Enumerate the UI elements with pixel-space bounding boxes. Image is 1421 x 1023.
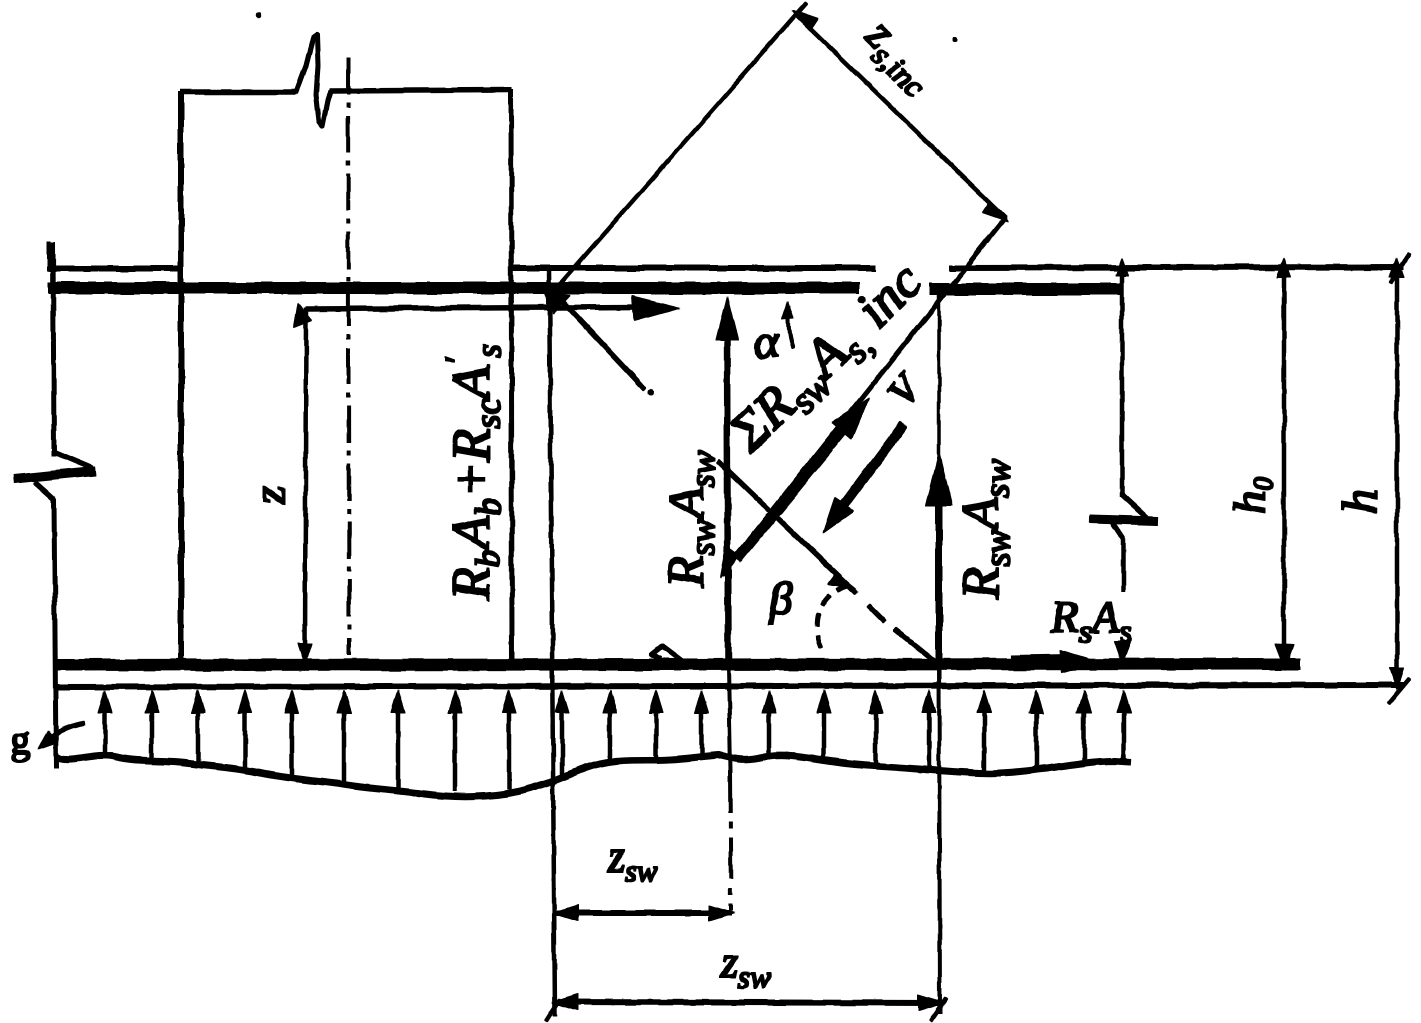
distributed load arrow 4 <box>243 710 247 769</box>
bottom steel force arrow RsAs <box>1012 660 1072 661</box>
beam right edge break symbol <box>1122 495 1147 518</box>
beam top chord thick line right segment <box>930 284 1119 295</box>
zs,inc dimension line <box>795 14 1005 218</box>
distributed load arrow 3 <box>196 710 200 763</box>
distributed load arrow 7 <box>396 710 400 789</box>
inclined bar axis line <box>722 218 1005 574</box>
z dimension arrow (lever arm) <box>305 308 306 660</box>
svg-text:zs,inc: zs,inc <box>851 8 948 104</box>
beam left edge <box>53 242 54 456</box>
top face left end upturn <box>48 241 51 271</box>
svg-text:RbAb+RscA′s: RbAb+RscA′s <box>437 344 508 601</box>
h dimension line <box>1395 268 1399 686</box>
wavy soil line of distributed load <box>56 755 1131 797</box>
beam right edge line with break <box>1120 268 1124 497</box>
shear force arrow V <box>840 424 904 510</box>
inclined crack line segment 3 <box>895 629 940 665</box>
distributed load arrow 8 <box>453 710 457 791</box>
column top edge <box>181 90 296 95</box>
beam top face thin line right segment <box>949 267 1403 268</box>
small arrowhead at lower end of inclined bar <box>720 546 738 577</box>
inclined crack dashed segment <box>868 605 884 621</box>
inclined direction arrow at chord crossing <box>553 291 641 385</box>
bottom chord break flag <box>652 646 682 661</box>
distributed load arrow 19 <box>1034 710 1038 767</box>
beam left edge break symbol <box>35 452 92 499</box>
distributed load arrow 14 <box>767 710 771 755</box>
right stirrup line <box>938 292 941 455</box>
small up arrow at top of right edge line <box>1116 258 1128 275</box>
svg-text:h: h <box>1331 489 1387 514</box>
distributed load arrow 21 <box>1122 710 1126 761</box>
distributed load arrow 15 <box>822 710 826 759</box>
left stirrup force arrow RswAsw <box>727 330 728 662</box>
right stirrup force arrowhead <box>926 452 952 506</box>
column axis dash-dot centerline <box>348 58 349 655</box>
column right edge <box>511 90 512 662</box>
column left edge <box>179 92 184 662</box>
distributed load arrow 9 <box>507 710 511 789</box>
distributed load arrow 13 <box>700 710 704 754</box>
column top break symbol <box>296 35 331 126</box>
zsw dimension 2 <box>556 1002 940 1003</box>
beam bottom face thin line <box>56 685 1404 687</box>
alpha leader arrow <box>789 306 794 348</box>
svg-text:g: g <box>10 717 30 762</box>
distributed load arrow 12 <box>654 710 658 758</box>
distributed load arrow 11 <box>608 710 612 763</box>
h0 dimension line <box>1282 268 1286 660</box>
beam top face thin line middle segment <box>510 266 875 271</box>
distributed load arrow 10 <box>560 710 564 774</box>
distributed load arrow 20 <box>1082 710 1086 763</box>
inclined crack line segment 1 <box>553 291 645 389</box>
svg-text:RswAsw: RswAsw <box>659 450 722 588</box>
distributed load arrow 6 <box>342 710 346 782</box>
extension line at start of inclined crack <box>549 268 555 1016</box>
g leader arrow <box>42 723 84 745</box>
svg-text:β: β <box>768 573 793 625</box>
extension line from chord crossing to zs,inc dimension <box>553 3 806 292</box>
compression force arrow RbAb+RscA's <box>306 307 645 309</box>
inclined bars force arrow sum RswAs,inc <box>737 428 845 559</box>
distributed load arrow 17 <box>927 710 931 768</box>
svg-text:zsw: zsw <box>607 832 658 888</box>
zsw dimension 1 <box>556 911 731 916</box>
svg-text:α: α <box>750 314 783 370</box>
distributed load arrow 16 <box>874 710 878 764</box>
svg-text:RswAsw: RswAsw <box>953 459 1017 600</box>
beam top chord thick line left segment <box>49 283 859 294</box>
ink blob at chord crossing junction <box>545 293 570 313</box>
h dimension top corner tick <box>1391 254 1409 283</box>
scan speck near zs,inc <box>953 37 957 41</box>
svg-text:h0: h0 <box>1224 477 1280 514</box>
zsw dimension 2 left corner tick <box>546 999 560 1021</box>
inclined crack line segment 2 <box>718 461 856 593</box>
h dimension corner tick <box>1389 678 1410 703</box>
scan speck top left <box>256 13 260 17</box>
distributed load arrow 1 <box>103 710 107 755</box>
arrowhead on crack line <box>828 573 856 589</box>
beta angle dashed arc <box>817 585 849 651</box>
distributed load g (arrows + wavy line) <box>56 755 1131 797</box>
svg-text:RsAs: RsAs <box>1050 591 1132 649</box>
distributed load arrow 18 <box>982 710 986 771</box>
svg-text:zsw: zsw <box>720 938 771 994</box>
left stirrup line below beam <box>728 666 730 772</box>
beam bottom chord thick line <box>56 664 1300 665</box>
beam top face thin line left segment <box>49 267 181 272</box>
distributed load arrow 5 <box>290 710 294 775</box>
svg-text:V: V <box>878 364 931 415</box>
svg-text:z: z <box>244 486 295 505</box>
distributed load arrow 2 <box>150 710 154 758</box>
